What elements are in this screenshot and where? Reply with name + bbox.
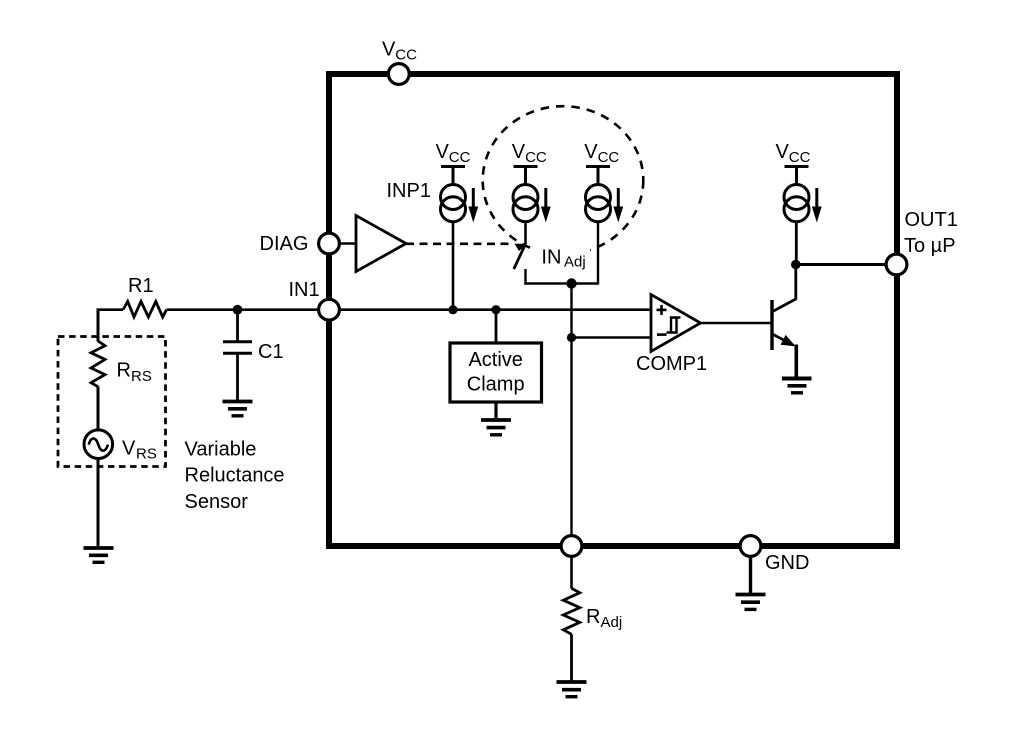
- label INAdj: [536, 246, 590, 271]
- svg-text:GND: GND: [765, 552, 809, 574]
- svg-text:CC: CC: [395, 47, 417, 64]
- svg-text:C1: C1: [258, 341, 284, 363]
- junction clamp tap: [491, 305, 500, 314]
- resistor RRS: [91, 341, 105, 387]
- wire to OUT1: [796, 263, 887, 266]
- svg-text:OUT1: OUT1: [905, 209, 958, 231]
- svg-text:V: V: [584, 141, 598, 163]
- ground (RAdj): [557, 682, 587, 697]
- wire C1 upper stem: [236, 310, 239, 342]
- switch INADJ: [514, 244, 526, 269]
- wire RRS to VRS: [97, 387, 100, 431]
- node IN1 pin: [319, 299, 340, 320]
- svg-text:RS: RS: [131, 368, 152, 385]
- wire clamp stem: [495, 310, 498, 343]
- svg-text:RS: RS: [136, 446, 157, 463]
- svg-text:Variable: Variable: [185, 438, 257, 460]
- wire output source stem: [795, 222, 798, 265]
- source VRS: [84, 430, 113, 459]
- node DIAG pin: [319, 233, 340, 254]
- svg-text:CC: CC: [449, 149, 471, 166]
- dashed box variable reluctance sensor: [58, 337, 166, 467]
- svg-text:R: R: [117, 360, 131, 382]
- wire sensor left vertical upper: [97, 308, 100, 341]
- svg-text:DIAG: DIAG: [260, 233, 309, 255]
- wire collector up: [794, 265, 797, 300]
- wire right column stem down: [597, 222, 599, 285]
- svg-text:V: V: [512, 141, 526, 163]
- svg-text:IN1: IN1: [289, 279, 320, 301]
- dashed circle adjustable sources group: [483, 106, 644, 254]
- capacitor C1: [223, 340, 252, 343]
- block Active Clamp: [450, 343, 542, 402]
- svg-text:INP1: INP1: [387, 180, 431, 202]
- svg-text:V: V: [436, 141, 450, 163]
- current source IADJ2: [586, 167, 611, 222]
- node OUT1 pin: [886, 254, 907, 275]
- wire emitter down: [794, 345, 798, 379]
- node GND pin: [740, 536, 761, 557]
- wire RAdj vertical: [570, 284, 572, 547]
- svg-text:IN: IN: [541, 246, 561, 268]
- svg-text:R1: R1: [128, 275, 154, 297]
- current source output: [784, 167, 809, 222]
- wire INP1 stem down: [452, 222, 455, 310]
- junction INAdj node: [566, 278, 576, 288]
- wire IN1 horizontal run (R1 to COMP1 + input): [167, 308, 652, 311]
- node VCC pin: [388, 64, 409, 85]
- junction COMP1 minus tap: [567, 333, 576, 342]
- transistor Q1: [772, 299, 797, 350]
- wire clamp ground stem: [494, 402, 497, 420]
- current source INP1: [441, 167, 466, 222]
- junction C1 tap: [233, 305, 243, 315]
- wire bottom horizontal of adj pair: [524, 282, 598, 284]
- op-amp diagnostic buffer: [356, 216, 406, 272]
- svg-text:Reluctance: Reluctance: [185, 464, 285, 486]
- svg-text:V: V: [776, 141, 790, 163]
- svg-text:COMP1: COMP1: [636, 353, 707, 375]
- wire RAdj lower stem: [570, 634, 573, 682]
- svg-text:CC: CC: [598, 149, 620, 166]
- wire stem to switch: [524, 222, 527, 245]
- junction collector node: [791, 260, 801, 270]
- svg-text:V: V: [122, 438, 136, 460]
- svg-text:Clamp: Clamp: [467, 374, 525, 396]
- resistor R1: [123, 302, 167, 318]
- svg-text:Adj: Adj: [564, 253, 586, 270]
- wire DIAG lead: [339, 242, 356, 245]
- svg-text:Active: Active: [468, 349, 522, 371]
- junction INP1 on IN1 wire: [448, 305, 457, 314]
- ground (GND pin): [736, 595, 766, 610]
- svg-text:Sensor: Sensor: [185, 491, 249, 513]
- wire switch bottom stem: [524, 269, 526, 285]
- ground (active clamp): [481, 420, 511, 435]
- wire dashed control line to switch: [406, 242, 514, 245]
- ground (sensor): [84, 548, 114, 562]
- wire VRS to ground: [97, 459, 100, 547]
- current source IADJ1: [513, 167, 538, 222]
- node RAdj pin: [561, 536, 582, 557]
- svg-text:Adj: Adj: [601, 614, 623, 631]
- svg-text:R: R: [586, 606, 600, 628]
- svg-text:To µP: To µP: [904, 235, 956, 257]
- wire R1 left lead: [97, 308, 123, 311]
- resistor RAdj: [563, 588, 580, 634]
- IC boundary box: [329, 74, 897, 546]
- wire RAdj upper stem: [570, 557, 573, 589]
- wire COMP1 minus input: [572, 336, 652, 339]
- ground (emitter): [782, 379, 812, 393]
- wire C1 lower stem: [236, 353, 239, 401]
- wire GND stem: [749, 557, 752, 595]
- comparator COMP1: [651, 295, 701, 352]
- svg-text:CC: CC: [789, 149, 811, 166]
- svg-text:CC: CC: [525, 149, 547, 166]
- ground (C1): [223, 402, 253, 416]
- wire COMP1 output: [701, 322, 771, 325]
- svg-text:V: V: [382, 39, 396, 61]
